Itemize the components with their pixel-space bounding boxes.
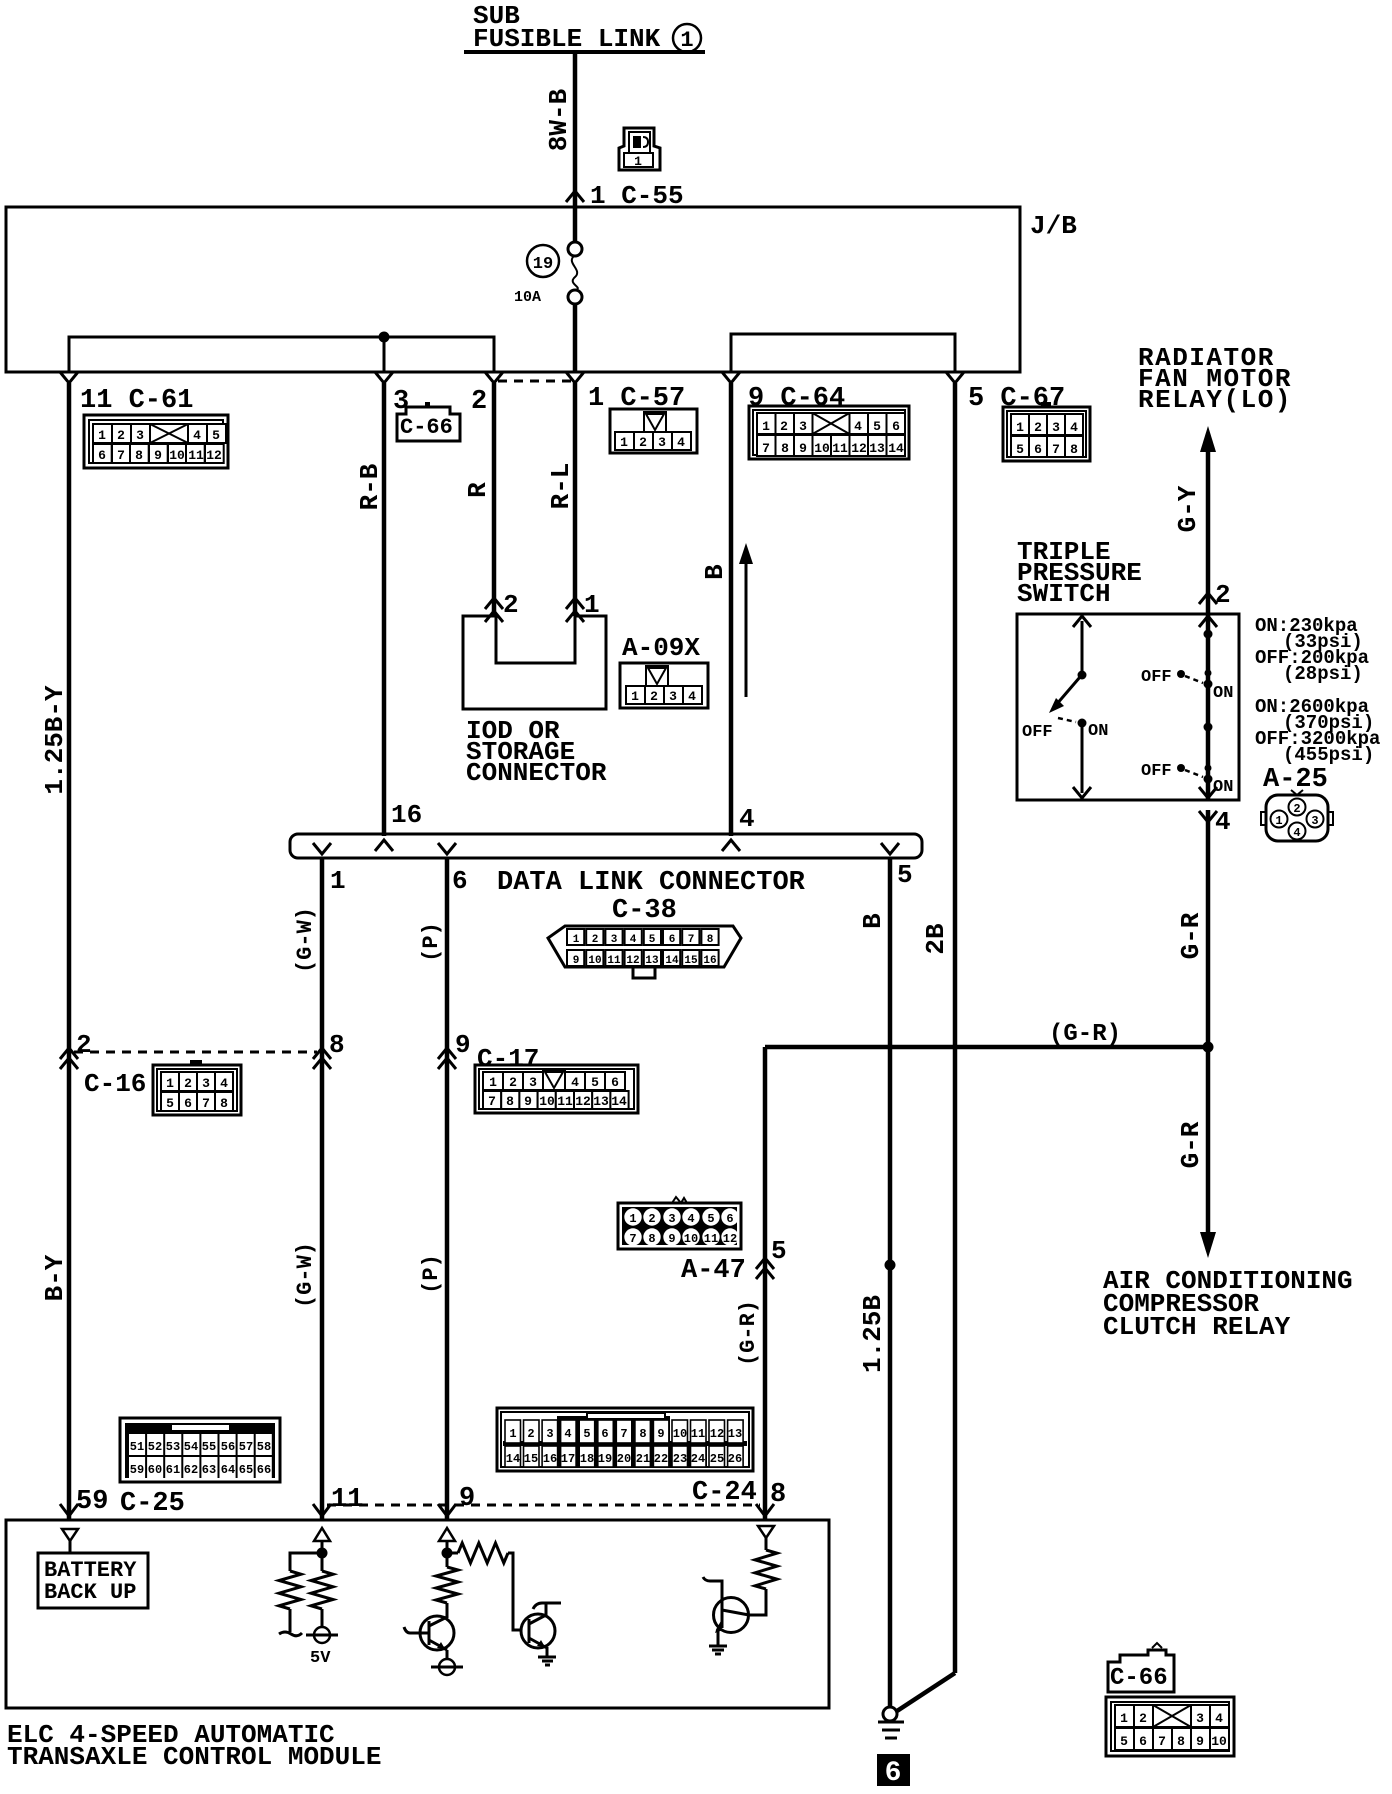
- svg-text:10A: 10A: [514, 289, 541, 306]
- svg-text:TRANSAXLE CONTROL MODULE: TRANSAXLE CONTROL MODULE: [7, 1742, 381, 1772]
- svg-text:9: 9: [524, 1094, 532, 1109]
- label AIR CONDITIONING COMPRESSOR CLUTCH RELAY: [1103, 1266, 1353, 1342]
- svg-text:OFF: OFF: [1141, 668, 1172, 687]
- wire 1.25B-Y / B-Y (C-61 pin11 to module pin 59): [40, 383, 70, 1520]
- connector A-47 icon: [618, 1197, 741, 1249]
- svg-text:(G-W): (G-W): [293, 1242, 318, 1308]
- svg-text:BACK UP: BACK UP: [44, 1580, 136, 1605]
- connector C-24 icon: [497, 1408, 753, 1471]
- 5V supply terminal: [306, 1609, 338, 1668]
- bus exit pin 6: [438, 843, 468, 896]
- svg-text:8: 8: [329, 1030, 345, 1060]
- connector C-66 icon (in J/B): [397, 402, 460, 441]
- connector C-66 label box (bottom): [1108, 1643, 1174, 1692]
- svg-text:13: 13: [869, 441, 885, 456]
- svg-text:1: 1: [620, 435, 628, 450]
- J/B internal bus wire left (to C-61 pin11, C-66 pin3, C-57 pin2): [69, 332, 494, 373]
- resistor R3 (horizontal to Q2 base): [447, 1543, 521, 1630]
- svg-text:8W-B: 8W-B: [544, 88, 574, 151]
- wire G-R from switch pin4 down: [1176, 810, 1208, 1047]
- svg-text:14: 14: [506, 1452, 520, 1466]
- svg-text:11: 11: [188, 448, 204, 463]
- wire (P) (data link pin6 to module pin 9): [419, 858, 447, 1520]
- svg-text:13: 13: [593, 1094, 609, 1109]
- svg-text:13: 13: [728, 1427, 742, 1441]
- svg-text:13: 13: [645, 955, 659, 967]
- switch pin 2 entry arrows: [1199, 580, 1231, 627]
- power source label SUB FUSIBLE LINK 1: [464, 1, 705, 54]
- svg-text:14: 14: [888, 441, 904, 456]
- svg-text:4: 4: [571, 1075, 579, 1090]
- svg-text:4: 4: [854, 419, 862, 434]
- connector junction C-16 pin 2 (double chevron): [60, 1030, 92, 1069]
- svg-text:1: 1: [509, 1427, 516, 1441]
- svg-text:9: 9: [459, 1484, 475, 1514]
- svg-text:3: 3: [668, 1212, 675, 1226]
- svg-text:1: 1: [330, 866, 346, 896]
- svg-text:8: 8: [1070, 442, 1078, 457]
- svg-text:G-Y: G-Y: [1173, 485, 1203, 532]
- svg-text:51: 51: [130, 1440, 144, 1454]
- svg-text:5: 5: [591, 1075, 599, 1090]
- wire G-Y to radiator fan relay (arrow up): [1173, 426, 1216, 614]
- svg-text:2: 2: [527, 1427, 534, 1441]
- svg-text:11: 11: [331, 1485, 363, 1515]
- svg-text:3: 3: [546, 1427, 553, 1441]
- svg-text:4: 4: [1215, 807, 1231, 837]
- svg-text:CLUTCH RELAY: CLUTCH RELAY: [1103, 1312, 1291, 1342]
- battery backup input triangle (pin 59): [62, 1529, 78, 1553]
- svg-text:3: 3: [1196, 1711, 1204, 1726]
- wire B / 1.25B (data link pin5 down to ground): [858, 858, 896, 1707]
- svg-text:6: 6: [601, 1427, 608, 1441]
- svg-text:G-R: G-R: [1176, 1121, 1206, 1168]
- svg-text:(455psi): (455psi): [1283, 744, 1374, 766]
- svg-text:1: 1: [680, 28, 693, 53]
- connector C-67 icon: [1003, 402, 1090, 461]
- svg-text:DATA LINK CONNECTOR: DATA LINK CONNECTOR: [497, 868, 806, 898]
- label RADIATOR FAN MOTOR RELAY(LO): [1138, 343, 1292, 415]
- svg-text:(P): (P): [419, 922, 444, 962]
- svg-text:J/B: J/B: [1030, 211, 1077, 241]
- pin 11 input triangle: [314, 1528, 330, 1553]
- svg-text:C-16: C-16: [84, 1069, 146, 1099]
- svg-text:(G-R): (G-R): [1049, 1021, 1121, 1048]
- svg-text:17: 17: [561, 1452, 575, 1466]
- svg-text:7: 7: [620, 1427, 627, 1441]
- triple pressure switch box: [1017, 537, 1239, 800]
- svg-text:1: 1: [631, 689, 639, 704]
- IOD pin 2 arrows: [485, 590, 519, 622]
- dashed wire across module pins 11-8: [327, 1504, 760, 1507]
- svg-text:3: 3: [658, 435, 666, 450]
- module pin 11 chevron and label: [313, 1504, 331, 1516]
- junction block J/B: [6, 207, 1077, 372]
- svg-text:1: 1: [1016, 420, 1024, 435]
- wire B (C-64 pin9 to data link pin4): [700, 383, 731, 836]
- connector C-61 icon: [84, 415, 228, 468]
- svg-text:4: 4: [677, 435, 685, 450]
- svg-text:(G-R): (G-R): [736, 1300, 761, 1366]
- node junction G-R: [1203, 1042, 1214, 1053]
- connector C-38 icon (OBD): [548, 926, 741, 978]
- svg-text:C-66: C-66: [400, 415, 453, 440]
- svg-text:5V: 5V: [310, 1649, 331, 1668]
- resistor R5 (above Q3 collector): [749, 1550, 777, 1615]
- J/B exit arrow pin 5 C-67: [946, 372, 964, 383]
- ground reference 6: [877, 1754, 910, 1789]
- J/B internal bus wire right (to C-64 pin9, C-67 pin5): [731, 334, 955, 372]
- svg-text:2: 2: [184, 1076, 192, 1091]
- J/B exit arrow pin 2 C-57: [485, 372, 503, 383]
- svg-text:4: 4: [564, 1427, 571, 1441]
- svg-text:3: 3: [669, 689, 677, 704]
- node junction pin 9: [442, 1548, 453, 1559]
- svg-text:7: 7: [1158, 1734, 1166, 1749]
- svg-text:21: 21: [636, 1452, 650, 1466]
- svg-text:61: 61: [166, 1463, 180, 1477]
- svg-text:1: 1: [1120, 1711, 1128, 1726]
- svg-text:C-38: C-38: [612, 896, 677, 926]
- pin 8 input triangle: [758, 1526, 774, 1550]
- svg-text:10: 10: [684, 1232, 698, 1246]
- svg-text:2: 2: [639, 435, 647, 450]
- svg-text:55: 55: [202, 1440, 216, 1454]
- svg-text:2: 2: [650, 689, 658, 704]
- svg-text:1: 1: [573, 934, 580, 946]
- svg-text:57: 57: [239, 1440, 253, 1454]
- ground symbol: [878, 1707, 904, 1738]
- svg-text:2: 2: [1139, 1711, 1147, 1726]
- svg-text:4: 4: [687, 1212, 694, 1226]
- bus exit pin 5: [881, 843, 913, 890]
- svg-text:12: 12: [575, 1094, 591, 1109]
- svg-text:4: 4: [220, 1076, 228, 1091]
- svg-text:11: 11: [607, 955, 621, 967]
- svg-text:3: 3: [1311, 814, 1318, 828]
- svg-text:3: 3: [1052, 420, 1060, 435]
- svg-text:RELAY(LO): RELAY(LO): [1138, 385, 1292, 415]
- svg-text:1.25B: 1.25B: [858, 1295, 888, 1373]
- svg-text:2: 2: [1293, 802, 1300, 816]
- svg-text:1: 1: [629, 1212, 636, 1226]
- svg-text:B: B: [700, 564, 730, 580]
- svg-text:6: 6: [98, 448, 106, 463]
- svg-text:66: 66: [257, 1463, 271, 1477]
- svg-text:6: 6: [669, 934, 676, 946]
- wire (G-W) (data link pin1 to module pin 11): [293, 858, 322, 1520]
- svg-text:15: 15: [684, 955, 698, 967]
- pin 9 input triangle: [439, 1528, 455, 1553]
- svg-text:9: 9: [573, 955, 580, 967]
- svg-text:18: 18: [580, 1452, 594, 1466]
- J/B exit arrow pin 1 C-57: [566, 372, 584, 383]
- connector C-64 icon: [749, 406, 909, 459]
- IOD pin 1 arrows: [566, 590, 600, 622]
- svg-text:16: 16: [703, 955, 716, 967]
- svg-text:FUSIBLE LINK: FUSIBLE LINK: [473, 24, 661, 54]
- svg-text:8: 8: [639, 1427, 646, 1441]
- connector junction A-47 pin 5 (double chevron): [756, 1236, 787, 1279]
- svg-text:56: 56: [221, 1440, 235, 1454]
- svg-text:59: 59: [130, 1463, 144, 1477]
- wire G-R down to A/C compressor clutch relay (arrow down): [1176, 1047, 1216, 1258]
- svg-text:64: 64: [221, 1463, 235, 1477]
- svg-text:2: 2: [503, 590, 519, 620]
- battery back up block: [38, 1553, 148, 1608]
- IOD or storage connector box: [463, 616, 607, 788]
- svg-text:12: 12: [206, 448, 222, 463]
- svg-text:16: 16: [391, 800, 422, 830]
- svg-text:8: 8: [707, 934, 714, 946]
- svg-text:7: 7: [488, 1094, 496, 1109]
- svg-text:7: 7: [202, 1096, 210, 1111]
- svg-text:25: 25: [710, 1452, 724, 1466]
- wire R-B (C-66 pin3 to data link pin16): [355, 383, 385, 836]
- svg-text:1: 1: [166, 1076, 174, 1091]
- node junction pin 11: [317, 1548, 328, 1559]
- module pin 59 chevron: [60, 1504, 78, 1516]
- svg-text:B-Y: B-Y: [40, 1254, 70, 1301]
- svg-text:6: 6: [1139, 1734, 1147, 1749]
- pressure setpoint annotation (lo): [1255, 615, 1369, 685]
- bus entry pin 4: [722, 804, 755, 851]
- svg-text:59: 59: [76, 1487, 108, 1517]
- connector A-25 icon: [1261, 790, 1333, 841]
- connector junction C-17 pin 9 (double chevron): [438, 1030, 471, 1069]
- svg-text:52: 52: [148, 1440, 162, 1454]
- svg-text:6: 6: [885, 1758, 902, 1789]
- svg-text:3: 3: [799, 419, 807, 434]
- connector C-55 icon: [619, 128, 660, 170]
- svg-text:2: 2: [592, 934, 599, 946]
- svg-text:7: 7: [629, 1232, 636, 1246]
- svg-text:1: 1: [584, 590, 600, 620]
- resistor R1 (left of 5V pair): [279, 1571, 301, 1609]
- svg-text:9: 9: [154, 448, 162, 463]
- bus entry pin 16: [375, 800, 422, 851]
- svg-text:3: 3: [529, 1075, 537, 1090]
- connector C-57 icon: [610, 409, 697, 453]
- data link connector bus box: [290, 834, 922, 926]
- svg-text:12: 12: [851, 441, 867, 456]
- svg-text:2: 2: [76, 1030, 92, 1060]
- svg-text:G-R: G-R: [1176, 912, 1206, 959]
- svg-text:4: 4: [739, 804, 755, 834]
- svg-text:8: 8: [1177, 1734, 1185, 1749]
- module pin 9 chevron and label: [438, 1504, 456, 1516]
- wire (G-R) vertical to module pin 8: [736, 1047, 765, 1520]
- svg-text:5: 5: [771, 1236, 787, 1266]
- svg-text:10: 10: [1211, 1734, 1227, 1749]
- svg-text:12: 12: [710, 1427, 724, 1441]
- connector C-25 icon: [120, 1418, 280, 1482]
- svg-text:10: 10: [814, 441, 830, 456]
- module pin 8 chevron: [756, 1504, 774, 1516]
- svg-text:OFF: OFF: [1022, 723, 1053, 742]
- svg-text:2: 2: [1034, 420, 1042, 435]
- connector C-16 icon: [153, 1060, 241, 1115]
- svg-text:R: R: [463, 482, 493, 498]
- svg-text:ON: ON: [1213, 684, 1233, 703]
- svg-text:1: 1: [634, 154, 642, 169]
- svg-text:1: 1: [762, 419, 770, 434]
- svg-text:(G-W): (G-W): [293, 907, 318, 973]
- svg-text:10: 10: [539, 1094, 555, 1109]
- svg-text:7: 7: [762, 441, 770, 456]
- svg-text:A-47: A-47: [681, 1256, 746, 1286]
- svg-text:2: 2: [117, 428, 125, 443]
- svg-text:1: 1: [1275, 814, 1282, 828]
- switch pin 4 exit arrows: [1199, 807, 1231, 837]
- svg-text:1.25B-Y: 1.25B-Y: [40, 685, 70, 795]
- resistor R4 (vertical above Q1): [436, 1553, 458, 1618]
- svg-text:6: 6: [726, 1212, 733, 1226]
- svg-text:2B: 2B: [921, 923, 951, 955]
- svg-text:B: B: [858, 913, 888, 929]
- wire 2B (C-67 pin5 down to ground): [897, 383, 955, 1711]
- svg-text:8: 8: [135, 448, 143, 463]
- svg-text:6: 6: [611, 1075, 619, 1090]
- J/B exit arrow pin 9 C-64: [722, 372, 740, 383]
- svg-text:8: 8: [506, 1094, 514, 1109]
- switch pole 1 (left, lo-pressure contact): [1022, 616, 1108, 798]
- wire (G-R) horizontal branch: [765, 1021, 1208, 1048]
- svg-text:C-66: C-66: [1110, 1665, 1168, 1692]
- transistor Q1: [404, 1616, 454, 1659]
- svg-text:R-B: R-B: [355, 463, 385, 510]
- svg-text:11 C-61: 11 C-61: [80, 386, 193, 416]
- svg-text:4: 4: [1070, 420, 1078, 435]
- Q2 emitter to ground: [538, 1647, 556, 1665]
- svg-text:12: 12: [626, 955, 639, 967]
- svg-text:26: 26: [728, 1452, 742, 1466]
- svg-text:2: 2: [471, 387, 487, 417]
- current direction arrow beside wire B: [739, 543, 753, 697]
- svg-text:5: 5: [897, 860, 913, 890]
- svg-text:1: 1: [489, 1075, 497, 1090]
- Q1 emitter terminal symbol: [431, 1659, 463, 1675]
- svg-text:60: 60: [148, 1463, 162, 1477]
- svg-text:5: 5: [1016, 442, 1024, 457]
- wire 8W-B from fusible link to C-55: [544, 54, 584, 207]
- svg-text:11: 11: [832, 441, 848, 456]
- svg-text:A-09X: A-09X: [622, 633, 700, 663]
- svg-text:R-L: R-L: [546, 463, 576, 510]
- svg-text:4: 4: [1215, 1711, 1223, 1726]
- svg-text:58: 58: [257, 1440, 271, 1454]
- svg-text:22: 22: [654, 1452, 668, 1466]
- svg-text:5: 5: [873, 419, 881, 434]
- connector A-09X icon: [620, 663, 708, 708]
- svg-text:20: 20: [617, 1452, 631, 1466]
- svg-text:24: 24: [691, 1452, 705, 1466]
- wire to pull-up resistor pair: [290, 1553, 322, 1571]
- Q2 collector open lead: [533, 1603, 561, 1616]
- svg-text:2: 2: [1215, 580, 1231, 610]
- svg-text:5: 5: [649, 934, 656, 946]
- svg-text:5: 5: [212, 428, 220, 443]
- svg-text:15: 15: [524, 1452, 538, 1466]
- svg-text:53: 53: [166, 1440, 180, 1454]
- svg-text:2: 2: [509, 1075, 517, 1090]
- svg-text:(P): (P): [419, 1254, 444, 1294]
- svg-text:9: 9: [668, 1232, 675, 1246]
- open end under R1: [279, 1609, 302, 1636]
- svg-text:6: 6: [452, 866, 468, 896]
- svg-text:3: 3: [611, 934, 618, 946]
- svg-text:12: 12: [723, 1232, 737, 1246]
- svg-text:1: 1: [98, 428, 106, 443]
- svg-text:5: 5: [166, 1096, 174, 1111]
- svg-text:14: 14: [611, 1094, 627, 1109]
- svg-text:4: 4: [688, 689, 696, 704]
- svg-text:19: 19: [533, 255, 553, 274]
- svg-text:8: 8: [781, 441, 789, 456]
- bus exit pin 1: [313, 843, 346, 896]
- svg-text:CONNECTOR: CONNECTOR: [466, 758, 607, 788]
- svg-text:3: 3: [202, 1076, 210, 1091]
- svg-text:(28psi): (28psi): [1283, 663, 1363, 685]
- svg-text:4: 4: [630, 934, 637, 946]
- svg-text:11: 11: [691, 1427, 705, 1441]
- connector C-66 icon (bottom): [1106, 1697, 1234, 1756]
- svg-text:5: 5: [583, 1427, 590, 1441]
- ELC 4-speed automatic transaxle control module box: [6, 1520, 829, 1772]
- svg-text:4: 4: [1293, 826, 1300, 840]
- transistor Q3: [703, 1577, 749, 1645]
- fuse 19 10A inside J/B: [514, 207, 582, 372]
- pressure setpoint annotation (hi): [1255, 696, 1380, 766]
- svg-text:11: 11: [704, 1232, 718, 1246]
- wire R (C-57 pin2 to IOD pin2): [463, 383, 494, 616]
- wire R-L (C-57 pin1 to IOD pin1): [546, 383, 576, 616]
- svg-text:2: 2: [648, 1212, 655, 1226]
- svg-text:10: 10: [588, 955, 601, 967]
- svg-text:63: 63: [202, 1463, 216, 1477]
- svg-text:23: 23: [673, 1452, 687, 1466]
- svg-text:10: 10: [673, 1427, 687, 1441]
- switch pole 2 (middle, G-Y path with hi/lo contacts): [1141, 614, 1233, 800]
- svg-text:OFF: OFF: [1141, 762, 1172, 781]
- svg-text:54: 54: [184, 1440, 198, 1454]
- svg-text:5: 5: [707, 1212, 714, 1226]
- svg-text:7: 7: [117, 448, 125, 463]
- dashed wire C-16 pin2 to pin8: [74, 1051, 317, 1054]
- connector C-17 icon: [475, 1065, 638, 1113]
- svg-text:9: 9: [1196, 1734, 1204, 1749]
- svg-text:7: 7: [688, 934, 695, 946]
- svg-text:14: 14: [665, 955, 679, 967]
- svg-text:3: 3: [136, 428, 144, 443]
- svg-text:4: 4: [193, 428, 201, 443]
- svg-text:5: 5: [1120, 1734, 1128, 1749]
- dashed wire between pin2 and pin1: [498, 380, 571, 383]
- svg-text:6: 6: [1034, 442, 1042, 457]
- svg-text:65: 65: [239, 1463, 253, 1477]
- svg-text:2: 2: [780, 419, 788, 434]
- resistor R2 (to 5V): [321, 1553, 324, 1571]
- svg-text:9: 9: [657, 1427, 664, 1441]
- transistor Q2: [521, 1614, 555, 1648]
- svg-text:8: 8: [220, 1096, 228, 1111]
- J/B exit arrow pin 11 C-61: [60, 372, 78, 383]
- svg-text:7: 7: [1052, 442, 1060, 457]
- svg-text:11: 11: [557, 1094, 573, 1109]
- svg-text:5 C-67: 5 C-67: [968, 384, 1065, 414]
- Q3 emitter ground: [709, 1646, 727, 1654]
- connector junction C-16 pin 8 (double chevron): [313, 1030, 345, 1069]
